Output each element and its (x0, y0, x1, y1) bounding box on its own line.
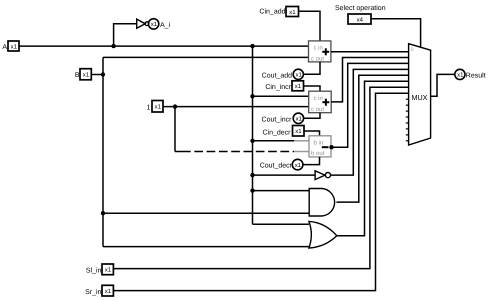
node junction A-to-subtractor (250, 139, 254, 143)
MUX U7 (409, 44, 431, 145)
adder U2 (incrementer A plus 1) (309, 91, 332, 113)
svg-text:x1: x1 (295, 83, 302, 90)
input pin A (8, 41, 19, 51)
wire OR output to MUX input6 (337, 81, 409, 235)
svg-text:c out: c out (311, 107, 324, 113)
input pin Cin_add (286, 7, 299, 17)
svg-text:x1: x1 (295, 128, 302, 135)
wire A to adder2 input1 (253, 95, 309, 97)
wire A bus vertical (252, 46, 254, 224)
wire B to junction (91, 74, 103, 76)
svg-text:c in: c in (314, 95, 323, 102)
constant pin 1 (152, 101, 163, 113)
svg-text:Cout_decr: Cout_decr (260, 162, 293, 170)
wire A to OR gate input1 (253, 223, 309, 225)
input pin Sr_in (102, 285, 113, 296)
wire Cin_decr to subtractor borrow in (304, 131, 320, 136)
svg-text:Cin_add: Cin_add (259, 8, 285, 16)
svg-text:x1: x1 (151, 21, 158, 28)
wire Select to MUX (371, 19, 421, 47)
OR gate U6 (309, 221, 337, 248)
wire A to AND gate input1 (253, 190, 310, 192)
node junction subtractor output (329, 145, 333, 149)
svg-text:MUX: MUX (412, 93, 428, 102)
svg-text:1: 1 (147, 105, 151, 112)
wire A up to NOT gate (114, 24, 137, 46)
svg-text:A: A (2, 44, 7, 51)
wire subtractor borrow out (303, 157, 320, 165)
subtractor U3 (decrementer A minus 1) (309, 136, 331, 157)
svg-text:b in: b in (314, 140, 324, 147)
node junction B-to-AND (101, 211, 105, 215)
wire Cin_add to adder1 carry in (299, 11, 321, 41)
svg-text:x1: x1 (295, 162, 302, 169)
wire A to NOT2 input (253, 174, 316, 176)
node junction 1 (173, 104, 177, 108)
svg-text:b out: b out (311, 150, 325, 157)
wire A to subtractor input1 (253, 140, 295, 142)
wire 1 to subtractor input2 (dashed by watermark) (175, 151, 182, 153)
wire subtractor output to MUX input3 (331, 63, 409, 147)
plus symbol adder1 (322, 48, 329, 55)
wire adder2 carry out (304, 113, 320, 119)
minus symbol subtractor (322, 146, 329, 148)
svg-text:Result: Result (466, 72, 486, 80)
NOT gate (A_i inverter) (137, 19, 149, 28)
output pin Cout_incr (293, 113, 303, 123)
svg-text:x1: x1 (11, 43, 18, 50)
node junction A-to-NOT (111, 44, 115, 48)
input pin B (80, 69, 91, 80)
svg-text:x1: x1 (83, 72, 90, 79)
adder U1 (A plus B) (309, 41, 331, 62)
svg-text:x1: x1 (296, 116, 303, 123)
output pin Cout_add (293, 69, 303, 79)
svg-text:x1: x1 (105, 288, 112, 295)
svg-text:Cout_add: Cout_add (262, 71, 292, 79)
wire 1 to adder2 input2 (163, 106, 309, 108)
svg-text:B: B (75, 72, 80, 79)
output pin A_i (148, 19, 158, 29)
svg-text:x1: x1 (296, 72, 303, 79)
wire B to AND gate input2 (103, 212, 309, 214)
wire 1 bus vertical (174, 107, 176, 152)
svg-text:c in: c in (314, 45, 323, 52)
svg-text:x1: x1 (457, 72, 464, 79)
svg-text:x4: x4 (357, 16, 364, 23)
svg-text:x1: x1 (155, 104, 162, 111)
AND gate U5 (309, 189, 334, 217)
wire B bus vertical (102, 57, 104, 246)
svg-text:Cin_decr: Cin_decr (262, 128, 291, 136)
wire Sr_in to MUX input8 (113, 93, 408, 290)
plus symbol adder2 (322, 99, 329, 106)
svg-text:0: 0 (411, 47, 414, 53)
input pin Cin_decr (293, 126, 305, 137)
output pin Cout_decr (292, 159, 303, 170)
node junction B (101, 72, 105, 76)
node junction A-to-AND (250, 188, 254, 192)
svg-text:Cout_incr: Cout_incr (262, 115, 293, 123)
node junction A-to-NOT2 (250, 173, 254, 177)
wire MUX output to Result (431, 74, 455, 96)
wire adder1 output to MUX input1 (331, 51, 409, 53)
output pin Result (455, 69, 465, 79)
wire adder2 output to MUX input2 (331, 58, 408, 102)
input pin Cin_incr (292, 81, 304, 91)
svg-text:Cin_incr: Cin_incr (265, 83, 291, 91)
svg-text:A_i: A_i (160, 21, 171, 29)
node junction A-to-Abus (250, 44, 254, 48)
svg-text:Select operation: Select operation (335, 4, 386, 12)
wire Sl_in to MUX input7 (113, 87, 408, 268)
NOT gate U4 (A inverted to MUX) (315, 171, 330, 180)
svg-text:c out: c out (311, 56, 324, 62)
node junction A-to-adder2 (250, 94, 254, 98)
wire B to adder1 second input (103, 56, 309, 58)
svg-text:Sl_in: Sl_in (86, 266, 102, 274)
wire NOT2 output to MUX input4 (331, 69, 409, 175)
wire adder1 carry out (304, 62, 321, 74)
wire Cin_incr to adder2 carry in (304, 86, 321, 91)
svg-text:x1: x1 (289, 9, 296, 16)
wire B to OR gate input2 (103, 246, 309, 248)
wire A horizontal to adder1 (19, 45, 309, 47)
svg-text:x1: x1 (105, 267, 112, 274)
MUX unconnected input stubs (406, 99, 409, 141)
wire AND output to MUX input5 (336, 75, 408, 202)
input pin Sl_in (102, 264, 113, 275)
svg-text:Sr_in: Sr_in (85, 288, 101, 296)
input pin Select operation x4 (348, 14, 371, 24)
